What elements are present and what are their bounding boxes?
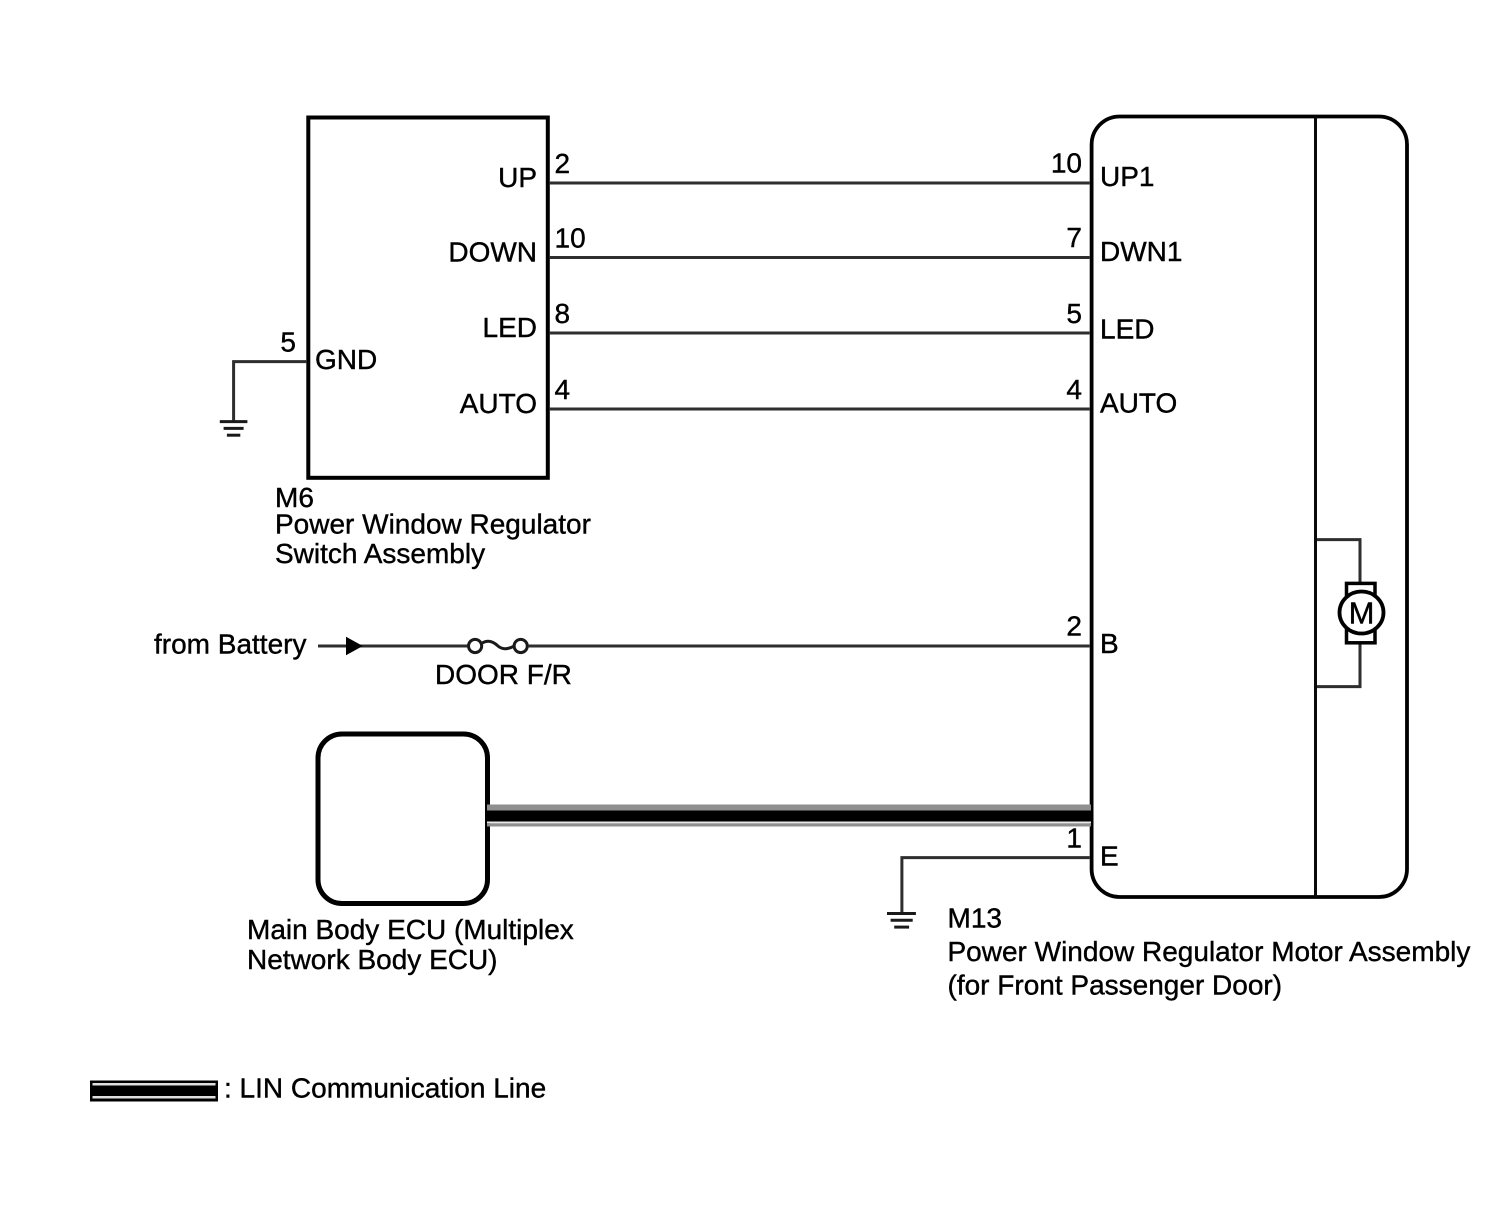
pin 4 AUTO label (M13) [1066,374,1177,419]
legend text LIN Communication Line [224,1073,546,1104]
label Main Body ECU [247,914,574,975]
svg-text:UP1: UP1 [1100,161,1154,192]
pin 10 DOWN label (M6) [448,223,585,268]
pin 5 LED label (M13) [1066,298,1154,344]
svg-text:4: 4 [1066,374,1082,405]
svg-text:DOWN: DOWN [448,237,537,268]
wire AUTO (M6 pin4 to M13 pin4) [550,408,1090,411]
pin 8 LED label (M6) [483,298,571,343]
svg-text:Network Body ECU): Network Body ECU) [247,944,498,975]
svg-text:GND: GND [315,344,377,375]
svg-text:2: 2 [1066,610,1082,641]
fuse value label DOOR F/R [435,659,572,690]
svg-text:E: E [1100,840,1119,871]
wire UP (M6 pin2 to M13 pin10) [550,182,1090,185]
svg-text:4: 4 [555,374,571,405]
svg-text:10: 10 [1051,148,1082,179]
pin 7 DWN1 label (M13) [1066,222,1182,267]
svg-text:from Battery: from Battery [154,628,306,659]
svg-text:AUTO: AUTO [1100,388,1177,419]
svg-text:2: 2 [555,148,571,179]
svg-text:(for Front Passenger Door): (for Front Passenger Door) [948,970,1283,1001]
svg-text:LED: LED [1100,313,1154,344]
wire LED (M6 pin8 to M13 pin5) [550,332,1090,335]
wire from Battery to fuse [318,645,468,648]
pin 5 GND label (M6) [280,327,377,375]
pin 2 UP label (M6) [498,148,570,193]
wire fuse to M13 pin B [528,645,1090,648]
wire motor loop bottom [1317,643,1360,687]
wire DOWN (M6 pin10 to M13 pin7) [550,256,1090,259]
svg-text:1: 1 [1066,823,1082,854]
label M6 designator [275,482,591,569]
main body ECU box [318,734,488,904]
pin 4 AUTO label (M6) [460,374,570,419]
svg-text:DWN1: DWN1 [1100,236,1182,267]
svg-text:UP: UP [498,162,537,193]
pin 1 E label (M13) [1066,823,1118,872]
svg-text:B: B [1100,628,1119,659]
wire motor loop top [1317,540,1360,583]
label M13 designator [948,902,1471,1000]
svg-text:DOOR F/R: DOOR F/R [435,659,572,690]
arrow from Battery [346,637,363,655]
svg-text:10: 10 [555,223,586,254]
svg-text:LED: LED [483,312,537,343]
LIN communication line (ECU to M13) [487,805,1091,827]
svg-text:Power Window Regulator Motor A: Power Window Regulator Motor Assembly [948,936,1471,967]
svg-text:Main Body ECU (Multiplex: Main Body ECU (Multiplex [247,914,574,945]
svg-text:5: 5 [280,327,296,358]
pin 2 B label (M13) [1066,610,1118,659]
motor assembly internal divider [1314,117,1317,897]
fuse DOOR F/R [469,639,528,652]
node from Battery [154,628,306,659]
motor M symbol [1340,583,1384,642]
svg-text:5: 5 [1066,298,1082,329]
pin 10 UP1 label (M13) [1051,148,1155,193]
svg-text:AUTO: AUTO [460,388,537,419]
svg-text:7: 7 [1066,222,1082,253]
svg-text:M13: M13 [948,902,1002,933]
motor assembly box M13 [1092,117,1407,898]
svg-text:M: M [1349,595,1375,630]
legend LIN bar [90,1081,218,1102]
ground symbol at M13 pin E [887,914,916,928]
switch assembly box M6 [308,118,548,478]
svg-text:Power Window Regulator: Power Window Regulator [275,509,591,540]
svg-text:8: 8 [555,298,571,329]
svg-text:: LIN Communication Line: : LIN Communication Line [224,1073,546,1104]
ground symbol at M6 [220,422,248,436]
wire E (M13 pin1 to ground) [902,858,1090,915]
wire GND (M6 pin5 to ground) [234,362,307,423]
svg-text:Switch Assembly: Switch Assembly [275,538,485,569]
